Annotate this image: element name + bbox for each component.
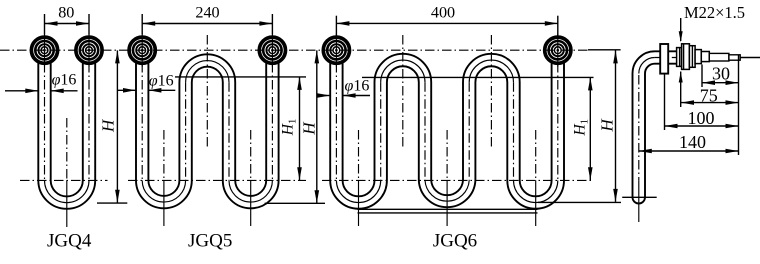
- svg-text:100: 100: [688, 108, 715, 128]
- JGQ6 bottom bend vertical centerlines: [358, 130, 360, 180]
- centerline extension beyond pin: [737, 57, 760, 59]
- svg-text:H1: H1: [572, 119, 591, 136]
- dimension H1 (JGQ5 inner height): [299, 77, 301, 180]
- svg-text:M22×1.5: M22×1.5: [684, 3, 745, 22]
- JGQ6 bottom bend horizontal centerline: [322, 179, 594, 181]
- dimension 75: [681, 102, 739, 104]
- svg-text:140: 140: [679, 132, 706, 152]
- extension of centerline to H dimension (right): [588, 49, 621, 51]
- terminal JGQ4 left: [31, 34, 57, 67]
- JGQ6 bottom support bar: [358, 208, 538, 210]
- main horizontal centerline through terminals: [0, 49, 590, 51]
- svg-text:240: 240: [195, 3, 219, 21]
- heater JGQ6 tube centerlines: [335, 63, 337, 180]
- dimension H (JGQ4 height): [116, 50, 118, 202]
- dimension H (shared, JGQ6 / side view height): [615, 50, 617, 202]
- side view tube bottom cap: [633, 197, 646, 203]
- svg-text:φ16: φ16: [344, 77, 369, 94]
- terminal JGQ6 right: [545, 34, 571, 67]
- dimension 400 (JGQ6 terminal spacing): [335, 16, 337, 36]
- terminal JGQ5 right: [259, 34, 285, 67]
- dimension phi16 (JGQ4 tube diameter): [5, 90, 38, 92]
- terminal JGQ5 left: [129, 34, 155, 67]
- svg-text:φ16: φ16: [52, 72, 77, 89]
- svg-text:H: H: [597, 118, 616, 133]
- dimension phi16 (JGQ5 tube diameter): [117, 89, 136, 91]
- JGQ5 H1 top extension line: [175, 76, 306, 78]
- dimension 100: [664, 74, 666, 131]
- svg-text:400: 400: [431, 3, 455, 21]
- svg-text:JGQ6: JGQ6: [433, 230, 477, 251]
- terminal pin: [729, 55, 740, 60]
- right reference extension line: [738, 55, 740, 155]
- JGQ5 bottom bend horizontal centerline: [128, 179, 306, 181]
- svg-text:JGQ4: JGQ4: [47, 230, 92, 251]
- dimension H1 (JGQ6 inner height): [589, 77, 591, 180]
- heater JGQ4 tube centerlines: [44, 63, 46, 180]
- heater JGQ5 tube walls: [136, 61, 279, 208]
- threaded fitting M22 body: [677, 48, 682, 67]
- side view elbow centerline arc: [639, 58, 655, 74]
- terminal JGQ4 right: [76, 34, 102, 67]
- side view tube centerline (vertical): [638, 75, 640, 180]
- heater JGQ4 tube walls: [38, 61, 95, 209]
- side view tube end line: [622, 196, 657, 198]
- JGQ5 top arch vertical centerline: [206, 35, 208, 148]
- terminal rod: [709, 53, 729, 61]
- svg-text:H: H: [99, 118, 118, 133]
- svg-text:φ16: φ16: [149, 72, 174, 89]
- dimension H (JGQ5 height): [316, 50, 318, 203]
- JGQ6 top arch vertical centerlines: [402, 35, 404, 148]
- svg-text:JGQ5: JGQ5: [188, 230, 232, 251]
- dimension phi16 (JGQ6 tube diameter): [317, 95, 330, 97]
- heater JGQ5 tube centerlines: [141, 63, 143, 180]
- svg-text:30: 30: [712, 64, 730, 84]
- dimension 30: [701, 65, 703, 88]
- dimension 80 (JGQ4 terminal spacing): [44, 14, 46, 35]
- mounting flange: [660, 44, 668, 74]
- dimension 240 (JGQ5 terminal spacing): [141, 14, 143, 35]
- JGQ4 bottom bend vertical centerline: [66, 118, 68, 180]
- single element side view: tube walls with elbow: [633, 51, 678, 197]
- JGQ6 H1 top extension line: [362, 76, 594, 78]
- JGQ5 bottom bend vertical centerlines: [163, 130, 165, 180]
- terminal JGQ6 left: [323, 34, 349, 67]
- dimension 140: [639, 150, 739, 152]
- fitting internal face lines: [679, 48, 681, 67]
- svg-text:H: H: [300, 121, 319, 136]
- side view tube centerline (horizontal): [655, 57, 737, 59]
- JGQ4 bottom bend horizontal centerline: [20, 179, 108, 181]
- svg-text:H1: H1: [280, 119, 299, 136]
- svg-text:75: 75: [700, 86, 718, 106]
- heater JGQ6 tube walls: [330, 61, 564, 209]
- svg-text:80: 80: [58, 3, 74, 21]
